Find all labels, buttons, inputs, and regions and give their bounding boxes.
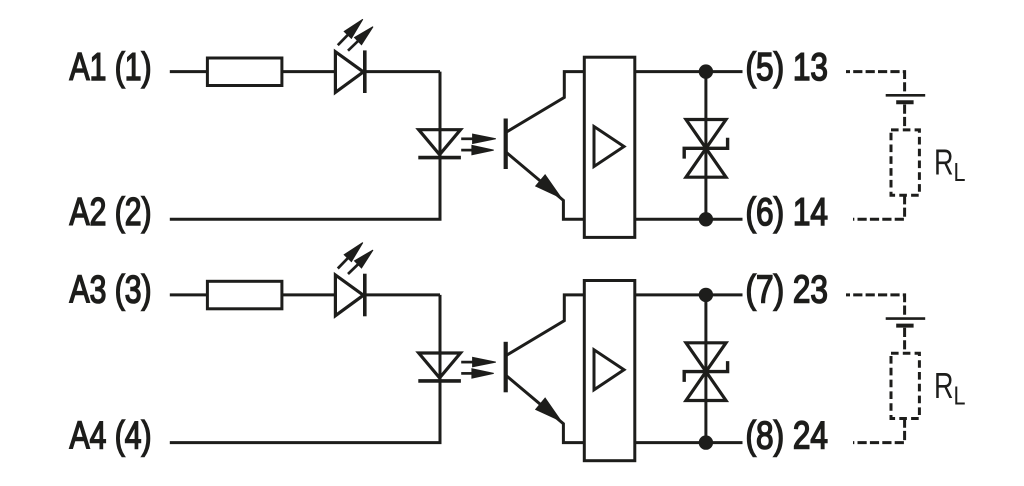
dashed external wire from (7) 23: [846, 295, 905, 316]
optocoupler LED D2 cathode bar: [418, 156, 461, 160]
dashed wire battery B1 to load RL1: [903, 105, 906, 130]
svg-text:(5) 13: (5) 13: [746, 46, 829, 89]
external battery B2 long plate: [886, 317, 926, 320]
junction node at (6) 14: [699, 212, 713, 226]
wire from resistor R1 to LED D1: [282, 70, 337, 73]
load resistor RL1 dashed box: [891, 130, 919, 195]
svg-text:(6) 14: (6) 14: [746, 191, 829, 234]
wire amplifier U2 to output (7) 23: [635, 293, 743, 296]
phototransistor Q1 collector wire to amplifier U1: [506, 72, 585, 133]
phototransistor Q2 emitter arrowhead: [536, 399, 560, 421]
TVS suppressor diode D6 zener bar: [684, 138, 727, 159]
wire amplifier U1 to output (6) 14: [635, 218, 743, 221]
svg-text:L: L: [954, 383, 966, 411]
dashed external wire from (5) 13: [846, 72, 905, 93]
LED D3 light emission arrows: [338, 243, 373, 274]
wire from resistor R2 to LED D3: [282, 293, 337, 296]
svg-text:A3 (3): A3 (3): [70, 269, 152, 312]
phototransistor Q1 base bar: [504, 119, 508, 170]
wire from A4 (4) to corner: [170, 441, 442, 444]
phototransistor Q2 collector wire to amplifier U2: [506, 295, 585, 356]
TVS suppressor diode D6 lower triangle: [686, 148, 726, 177]
wire from LED D1 to corner node: [365, 70, 440, 73]
svg-text:R: R: [934, 142, 954, 183]
junction node at (7) 23: [699, 288, 713, 302]
wire from A1 (1) to resistor R1: [170, 70, 209, 73]
resistor R2: [207, 281, 282, 309]
LED D1 light emission arrows: [338, 19, 373, 50]
indicator LED D3 triangle: [335, 275, 363, 316]
wire from A2 (2) to corner: [170, 218, 442, 221]
resistor R1: [207, 58, 282, 86]
external battery B2 short plate: [896, 324, 913, 328]
load resistor RL2 dashed box: [891, 353, 919, 418]
phototransistor Q2 emitter wire to amplifier U2: [506, 375, 585, 443]
svg-text:A4 (4): A4 (4): [70, 415, 152, 458]
svg-text:A1 (1): A1 (1): [70, 46, 152, 89]
optocoupler light arrows to phototransistor Q2: [461, 357, 496, 378]
optocoupler LED D2 triangle: [419, 130, 461, 155]
vertical wire through optocoupler LED D4: [439, 295, 442, 443]
wire amplifier U1 to output (5) 13: [635, 70, 743, 73]
svg-text:(8) 24: (8) 24: [746, 415, 829, 458]
dashed external wire from load RL2 to (8) 24: [853, 419, 905, 443]
optocoupler LED D4 cathode bar: [418, 379, 461, 383]
wire TVS D8 branch: [704, 295, 707, 443]
dashed wire battery B2 to load RL2: [903, 328, 906, 353]
wire from LED D3 to corner node: [365, 293, 440, 296]
wire TVS D6 branch: [704, 72, 707, 220]
indicator LED D1 triangle: [335, 52, 363, 93]
amplifier U2 triangle symbol: [594, 350, 624, 390]
indicator LED D1 cathode bar: [363, 50, 367, 93]
optocoupler light arrows to phototransistor Q1: [461, 134, 496, 155]
amplifier U2 box: [584, 281, 635, 461]
TVS suppressor diode D8 lower triangle: [686, 372, 726, 401]
indicator LED D3 cathode bar: [363, 274, 367, 317]
external battery B1 long plate: [886, 94, 926, 97]
phototransistor Q2 base bar: [504, 342, 508, 393]
junction node at (5) 13: [699, 64, 713, 78]
TVS suppressor diode D8 zener bar: [684, 361, 727, 382]
phototransistor Q1 emitter wire to amplifier U1: [506, 152, 585, 220]
svg-text:(7) 23: (7) 23: [746, 269, 829, 312]
TVS suppressor diode D6 upper triangle: [686, 120, 726, 149]
svg-text:R: R: [934, 365, 954, 406]
vertical wire through optocoupler LED D2: [439, 72, 442, 220]
wire amplifier U2 to output (8) 24: [635, 441, 743, 444]
dashed external wire from load RL1 to (6) 14: [853, 195, 905, 219]
svg-text:L: L: [954, 159, 966, 187]
amplifier U1 triangle symbol: [594, 127, 624, 167]
svg-text:A2 (2): A2 (2): [70, 191, 152, 234]
external battery B1 short plate: [896, 100, 913, 104]
wire from A3 (3) to resistor R2: [170, 293, 209, 296]
optocoupler LED D4 triangle: [419, 353, 461, 378]
TVS suppressor diode D8 upper triangle: [686, 343, 726, 372]
junction node at (8) 24: [699, 435, 713, 449]
phototransistor Q1 emitter arrowhead: [536, 175, 560, 197]
amplifier U1 box: [584, 57, 635, 237]
